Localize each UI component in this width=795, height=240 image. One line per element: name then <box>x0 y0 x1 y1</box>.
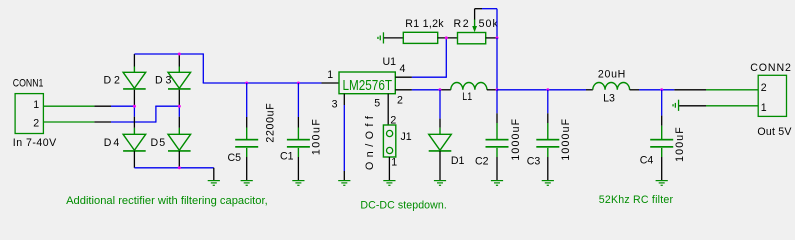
wire input rail <box>203 82 339 84</box>
wire D2 cathode down to node <box>133 90 135 107</box>
svg-text:CONN2: CONN2 <box>750 62 791 74</box>
svg-text:2: 2 <box>397 95 403 107</box>
svg-text:2: 2 <box>761 82 767 94</box>
junction R1-R2 feedback node <box>445 36 448 39</box>
junction D1 tap <box>438 88 441 91</box>
svg-text:D1: D1 <box>451 155 465 167</box>
wire ground to R1 <box>384 37 403 39</box>
junction C1 tap <box>297 82 300 85</box>
svg-text:1000uF: 1000uF <box>510 118 522 160</box>
svg-text:100uF: 100uF <box>674 127 686 162</box>
wire C4 to ground <box>661 148 663 180</box>
wire C4 to rail <box>661 90 663 139</box>
ground C5 <box>241 180 253 186</box>
junction bottom bus at D5 <box>178 166 181 169</box>
inductor L1 <box>451 83 487 90</box>
connector CONN1 <box>15 94 43 134</box>
wire C3 to ground <box>547 148 549 180</box>
svg-text:C2: C2 <box>475 156 489 168</box>
ground CONN2 (sideways) <box>672 100 679 111</box>
diode D4 <box>123 128 146 151</box>
svg-text:C5: C5 <box>228 152 242 164</box>
junction C3 tap <box>546 88 549 91</box>
wire C3 to rail <box>547 90 549 139</box>
svg-text:Additional rectifier with filt: Additional rectifier with filtering capa… <box>66 195 268 207</box>
wire C1 to rail <box>297 83 299 139</box>
capacitor C3 <box>536 139 559 148</box>
wire D1 to ground <box>439 151 441 180</box>
ground J1 <box>383 180 395 186</box>
capacitor C2 <box>486 139 509 148</box>
diode D3 <box>168 67 191 89</box>
svg-text:50k: 50k <box>479 18 499 30</box>
diode D5 <box>168 128 191 151</box>
wire C5 to rail <box>246 83 248 139</box>
junction C4 tap <box>660 88 663 91</box>
svg-text:1000uF: 1000uF <box>560 118 572 160</box>
svg-text:L1: L1 <box>462 91 472 103</box>
ground D1 <box>434 180 446 186</box>
wire D2 node to D4 <box>133 106 135 128</box>
connector CONN2 <box>758 75 786 116</box>
svg-text:4: 4 <box>400 63 406 75</box>
ground C4 <box>656 180 668 186</box>
svg-text:J1: J1 <box>401 131 412 143</box>
wire CONN1 pin1 to bridge <box>43 105 134 107</box>
svg-text:3: 3 <box>332 99 338 111</box>
wire CONN1 pin2 to bridge <box>43 106 179 122</box>
wire R1 to R2 <box>438 37 458 39</box>
potentiometer R2 <box>458 19 486 44</box>
junction node A (pin1/D2/D4) <box>133 105 136 108</box>
junction node B (pin2/D3/D5) <box>178 105 181 108</box>
svg-text:1: 1 <box>327 69 333 81</box>
ground C3 <box>542 180 554 186</box>
wire L3 to CONN2 pin2 <box>630 89 759 91</box>
ground C2 <box>491 180 503 186</box>
capacitor C5 <box>235 139 258 148</box>
ground C1 <box>292 180 304 186</box>
svg-text:R2: R2 <box>454 18 469 30</box>
IC U1 LM2576T <box>339 72 395 94</box>
capacitor C1 <box>287 139 310 148</box>
svg-text:C4: C4 <box>640 154 654 166</box>
wire C2 to rail <box>496 90 498 139</box>
svg-text:LM2576T: LM2576T <box>343 78 393 94</box>
svg-text:20uH: 20uH <box>598 69 625 81</box>
wire D3 cathode down to node <box>178 90 180 107</box>
diode D2 <box>123 67 146 89</box>
svg-text:52Khz RC filter: 52Khz RC filter <box>599 194 674 206</box>
jumper J1 <box>383 125 395 157</box>
svg-text:In 7-40V: In 7-40V <box>13 137 57 149</box>
wire output rail to L3 <box>497 89 593 91</box>
svg-text:U1: U1 <box>383 56 397 68</box>
svg-text:5: 5 <box>374 97 380 109</box>
wire feedback node down to output rail <box>496 38 498 90</box>
svg-text:C3: C3 <box>527 156 541 168</box>
junction R2 right node <box>496 36 499 39</box>
wire R2 wiper loop <box>475 9 497 38</box>
ground U1 pin3 <box>338 180 350 186</box>
wire L1 to output node <box>487 89 497 91</box>
svg-text:1: 1 <box>33 99 39 111</box>
wire D3 node to D5 <box>178 106 180 128</box>
svg-text:DC-DC stepdown.: DC-DC stepdown. <box>360 200 446 212</box>
svg-text:1: 1 <box>391 156 397 168</box>
wire U1 pin4 to feedback node <box>395 38 446 78</box>
wire C2 to ground <box>496 148 498 180</box>
wire U1 pin5 to J1 <box>387 94 389 125</box>
wire R2 right terminal <box>486 37 497 39</box>
diode D1 <box>429 134 452 151</box>
inductor L3 <box>593 82 630 89</box>
svg-text:R1 1,2k: R1 1,2k <box>405 18 444 30</box>
wire C5 to ground <box>246 148 248 180</box>
svg-text:100uF: 100uF <box>311 119 323 156</box>
resistor R1 <box>403 32 437 43</box>
wire D1 to rail <box>439 90 441 135</box>
svg-text:2200uF: 2200uF <box>265 103 277 143</box>
svg-text:2: 2 <box>33 117 39 129</box>
top bus wire <box>134 53 203 83</box>
svg-text:1: 1 <box>761 102 767 114</box>
wire CONN2 pin1 to ground <box>679 105 758 107</box>
svg-text:L3: L3 <box>603 93 615 105</box>
wire C1 to ground <box>297 148 299 180</box>
svg-text:D5: D5 <box>151 137 166 149</box>
junction output node C2 tap <box>496 88 499 91</box>
ground left of R1 (sideways) <box>377 32 384 43</box>
wire J1 pin1 to ground <box>388 157 390 180</box>
svg-text:C1: C1 <box>280 151 294 163</box>
bottom bus wire <box>134 151 213 180</box>
svg-text:CONN1: CONN1 <box>13 77 44 89</box>
wire U1 pin2 to L1 <box>395 89 451 91</box>
svg-text:Out 5V: Out 5V <box>757 126 792 138</box>
wire U1 pin3 to ground <box>343 94 345 180</box>
junction top bus at D3 <box>178 53 181 56</box>
junction C5 tap <box>245 82 248 85</box>
capacitor C4 <box>650 139 673 148</box>
ground bridge <box>208 180 220 186</box>
